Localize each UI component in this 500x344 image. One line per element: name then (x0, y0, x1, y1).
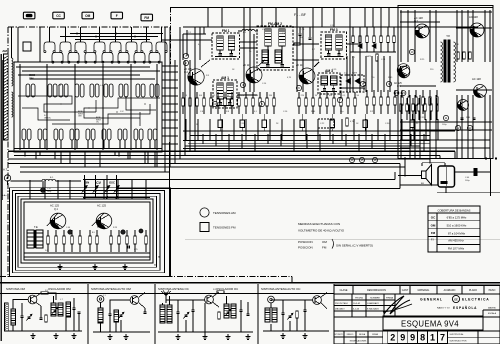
svg-text:6'85 a 12'5 MHz: 6'85 a 12'5 MHz (447, 216, 467, 220)
svg-text:FM-AM 2: FM-AM 2 (268, 22, 282, 26)
svg-text:SINTONIA OM: SINTONIA OM (6, 287, 25, 291)
svg-text:FM 1: FM 1 (222, 29, 230, 33)
svg-text:8: 8 (420, 333, 425, 343)
svg-text:FECHA: FECHA (359, 333, 366, 336)
svg-text:ESCALA: ESCALA (488, 312, 497, 315)
svg-text:FM: FM (431, 231, 436, 235)
svg-text:SINTONIA ANTENA AUTO OM: SINTONIA ANTENA AUTO OM (91, 287, 131, 291)
svg-text:FM: FM (144, 16, 149, 20)
svg-text:1: 1 (430, 333, 435, 343)
svg-text:AC 125: AC 125 (97, 204, 106, 208)
svg-text:AM 1: AM 1 (221, 76, 229, 80)
svg-text:OC: OC (96, 122, 100, 124)
svg-text:10n: 10n (300, 37, 303, 39)
svg-text:0,25: 0,25 (134, 249, 138, 251)
svg-text:510 a 1600 KHz: 510 a 1600 KHz (447, 224, 467, 228)
svg-text:5,0: 5,0 (45, 250, 48, 252)
svg-text:B.5: B.5 (92, 232, 95, 234)
svg-text:DIBUJO: DIBUJO (347, 334, 354, 336)
svg-text:OM/OC: OM/OC (44, 117, 52, 119)
svg-text:MADRID: MADRID (488, 307, 496, 310)
svg-text:GE: GE (454, 298, 458, 301)
svg-text:SUSTITUYE AL: SUSTITUYE AL (450, 333, 465, 336)
svg-text:C.V: C.V (120, 111, 124, 113)
svg-text:FIRMA: FIRMA (372, 333, 378, 336)
svg-text:POSICION: POSICION (298, 246, 313, 250)
svg-text:9: 9 (410, 333, 415, 343)
svg-text:SINTONIA ANTENA OC: SINTONIA ANTENA OC (158, 287, 189, 291)
svg-text:CV: CV (96, 181, 102, 185)
svg-text:A.Au: A.Au (2, 194, 6, 197)
svg-text:H: H (158, 256, 160, 259)
svg-text:F1 - BF: F1 - BF (294, 13, 307, 17)
svg-text:SUSTITUIDO POR: SUSTITUIDO POR (450, 340, 468, 342)
svg-text:H: H (154, 264, 156, 267)
svg-text:F.I: F.I (431, 238, 434, 242)
svg-text:T.E: T.E (34, 225, 38, 229)
svg-text:ESQUEMA 9V4: ESQUEMA 9V4 (401, 320, 459, 329)
svg-text:COBERTURA DE BANDAS: COBERTURA DE BANDAS (438, 208, 471, 212)
svg-text:POSICION: POSICION (298, 240, 313, 244)
svg-text:C.40: C.40 (66, 227, 70, 229)
svg-text:Q.2: Q.2 (184, 71, 189, 74)
svg-text:AC 128: AC 128 (469, 15, 478, 19)
svg-text:FECHA: FECHA (355, 297, 363, 300)
svg-text:SIN: SIN (85, 181, 90, 185)
svg-text:FM 10'7 MHz: FM 10'7 MHz (448, 247, 465, 251)
svg-text:FIRMA: FIRMA (386, 297, 393, 300)
svg-text:4,7K: 4,7K (287, 77, 292, 79)
svg-text:MODIFICACIONES: MODIFICACIONES (350, 340, 367, 343)
svg-text:OM: OM (85, 14, 90, 18)
svg-text:7: 7 (440, 333, 445, 343)
svg-text:PESO: PESO (489, 289, 496, 292)
svg-text:R.29: R.29 (113, 227, 117, 229)
svg-text:DIBUJADO: DIBUJADO (335, 308, 345, 311)
svg-text:Q.1: Q.1 (54, 208, 59, 211)
svg-text:SINTONIA ANTENA AUTO OC: SINTONIA ANTENA AUTO OC (261, 287, 300, 291)
svg-text:CANT: CANT (402, 289, 409, 292)
svg-text:10-9-62: 10-9-62 (353, 303, 361, 305)
svg-text:N? RECTI.: N? RECTI. (335, 334, 344, 336)
svg-text:9: 9 (400, 333, 405, 343)
svg-text:G E N E R A L: G E N E R A L (420, 298, 442, 302)
svg-text:AC 128: AC 128 (472, 77, 481, 81)
svg-text:E.SALGADO: E.SALGADO (367, 308, 379, 311)
svg-text:OA79: OA79 (366, 55, 372, 58)
svg-text:SIN SEÑAL (C.V ABIERTO): SIN SEÑAL (C.V ABIERTO) (336, 243, 373, 248)
svg-text:2: 2 (390, 333, 395, 343)
svg-text:A.T: A.T (3, 168, 8, 172)
svg-text:OM: OM (78, 116, 82, 118)
svg-text:F: F (116, 14, 118, 18)
svg-text:MEDIDAS EFECTUADAS CON: MEDIDAS EFECTUADAS CON (298, 222, 340, 226)
svg-text:TENSIONES FM: TENSIONES FM (213, 226, 236, 230)
svg-text:FM 3: FM 3 (330, 28, 338, 32)
svg-text:CC: CC (56, 14, 61, 18)
svg-text:AM 455 KHz: AM 455 KHz (448, 239, 464, 243)
svg-text:V2: V2 (402, 91, 406, 95)
svg-text:MATERIAL: MATERIAL (418, 289, 430, 292)
svg-text:NOMBRE: NOMBRE (370, 298, 380, 300)
svg-text:PLANO: PLANO (469, 289, 477, 292)
svg-text:TENSIONES AM: TENSIONES AM (213, 211, 236, 215)
svg-text:87 a 104 MHz: 87 a 104 MHz (448, 231, 466, 235)
svg-text:E L E C T R I C A: E L E C T R I C A (462, 298, 489, 302)
svg-text:ACABADO: ACABADO (444, 289, 456, 292)
svg-text:OM: OM (29, 77, 34, 81)
svg-text:VOLTIMETRO DE 40 KΩ./VOLTI: VOLTIMETRO DE 40 KΩ./VOLTIO (298, 229, 345, 233)
svg-text:J.MADRAZO: J.MADRAZO (367, 302, 379, 305)
svg-text:OSC: OSC (109, 181, 115, 185)
svg-text:CLASE: CLASE (340, 289, 348, 292)
svg-text:C.41: C.41 (47, 188, 51, 190)
svg-text:E S P A Ñ O L A: E S P A Ñ O L A (453, 305, 477, 310)
svg-text:OSCILADOR OM: OSCILADOR OM (48, 287, 71, 291)
svg-text:FM: FM (322, 246, 327, 250)
svg-text:OM: OM (431, 223, 436, 227)
svg-text:DENOMINACION: DENOMINACION (367, 289, 386, 292)
svg-text:PROYECTADO: PROYECTADO (335, 302, 349, 305)
svg-text:OM: OM (322, 240, 327, 244)
svg-text:RADIO Y T.V.: RADIO Y T.V. (437, 307, 450, 310)
svg-text:6-1-63: 6-1-63 (353, 309, 360, 311)
svg-text:T.8: T.8 (446, 34, 450, 38)
svg-text:AM: AM (2, 49, 7, 53)
